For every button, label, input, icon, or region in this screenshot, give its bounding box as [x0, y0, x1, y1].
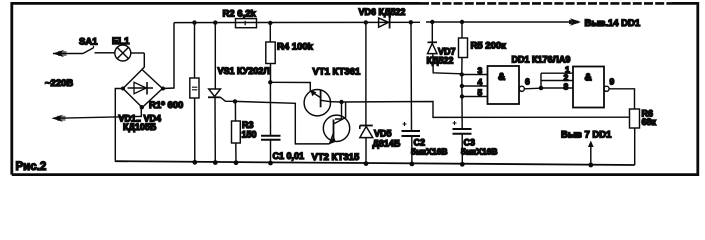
- resistor R1 (box with marks): [190, 23, 199, 163]
- node pin4: [460, 84, 464, 88]
- svg-text:68к: 68к: [642, 117, 657, 127]
- node rail2 R5: [460, 20, 464, 24]
- diode bridge VD1-VD4 diamond: [123, 70, 163, 108]
- svg-text:9: 9: [610, 77, 615, 87]
- svg-text:4: 4: [478, 77, 483, 87]
- node VT1 collector: [339, 100, 343, 104]
- svg-text:VD5: VD5: [374, 129, 392, 139]
- wire VT2 collector up to jog wire: [345, 102, 347, 110]
- svg-text:~220В: ~220В: [45, 78, 73, 89]
- node pin5: [460, 94, 464, 98]
- svg-text:Выв.14 DD1: Выв.14 DD1: [585, 18, 641, 29]
- svg-text:SA1: SA1: [79, 37, 98, 48]
- svg-text:5мкХ16В: 5мкХ16В: [411, 147, 448, 157]
- wire: R4 node down through gate-wire to C1: [269, 82, 271, 135]
- svg-text:6: 6: [525, 77, 530, 87]
- zener VD5: [360, 22, 373, 163]
- svg-text:Д814Б: Д814Б: [373, 139, 401, 149]
- svg-text:VT2 КТ315: VT2 КТ315: [312, 152, 360, 163]
- logic gate DD1.2: [573, 67, 609, 108]
- wire: right vertex up to top rail: [163, 23, 174, 89]
- svg-text:&: &: [585, 73, 592, 84]
- wire: R4 node to VT1 emitter: [270, 82, 310, 91]
- svg-text:R5 200к: R5 200к: [471, 41, 507, 52]
- svg-text:R1* 600: R1* 600: [149, 100, 183, 111]
- node R4 bottom: [268, 80, 272, 84]
- wire: gate1 out to gate2 inputs: [524, 73, 573, 89]
- svg-text:&: &: [498, 72, 505, 83]
- node on rail: VD5: [364, 20, 368, 24]
- capacitor C3: [453, 121, 472, 163]
- thyristor VS1: [208, 23, 235, 163]
- wire: left vertex to common rail: [115, 89, 123, 161]
- node on rail: C2 branch: [409, 20, 413, 24]
- lamp EL1: [106, 45, 144, 61]
- logic gate DD1.1: [488, 66, 525, 104]
- resistor R4: [266, 23, 275, 82]
- node gate/R3: [233, 99, 237, 103]
- svg-text:VT1 КТ361: VT1 КТ361: [313, 67, 361, 78]
- wire: lower AC lead to bridge bottom: [53, 107, 141, 118]
- diode VD7: [428, 22, 462, 74]
- resistor R6: [630, 109, 640, 165]
- node: bridge bottom vertex: [140, 105, 144, 109]
- border frame: [12, 3, 698, 174]
- node on rail: R4: [268, 21, 272, 25]
- capacitor C2: [402, 122, 421, 163]
- transistor VT1 (KT361 pnp): [304, 90, 330, 116]
- svg-text:R4 100k: R4 100k: [277, 42, 314, 53]
- svg-text:R3: R3: [242, 120, 254, 130]
- bus: gate1 inputs: [461, 74, 463, 129]
- resistor R5: [459, 22, 468, 74]
- wire: top rail (left section): [174, 21, 420, 23]
- arrowhead lower left: [52, 115, 66, 122]
- resistor R3: [232, 101, 241, 162]
- svg-text:КД522: КД522: [427, 56, 454, 66]
- svg-text:5мкХ16В: 5мкХ16В: [461, 147, 498, 157]
- emitter arrow VT2: [329, 136, 336, 144]
- svg-text:EL1: EL1: [112, 36, 130, 47]
- switch SA1: [83, 46, 106, 54]
- svg-text:Выв 7 DD1: Выв 7 DD1: [561, 130, 612, 141]
- pin7 stub with up arrow: [588, 141, 594, 166]
- node rail2 VD7: [430, 20, 434, 24]
- node on rail: R1: [192, 20, 196, 24]
- wire: gate wire VS1 to VT2 emitter: [235, 101, 330, 143]
- rail nodes: [192, 160, 197, 165]
- arrowhead pin14: [569, 18, 581, 25]
- node on rail: VS1: [213, 20, 217, 24]
- wire: lamp to bridge top: [142, 53, 144, 70]
- svg-text:VS1 КУ202Л: VS1 КУ202Л: [218, 66, 270, 76]
- node: bridge right vertex: [161, 87, 165, 91]
- capacitor C1: [261, 136, 281, 163]
- pin5 wire: [462, 96, 487, 98]
- svg-text:Рис.2: Рис.2: [16, 161, 47, 173]
- node gate2 in: [539, 86, 544, 91]
- svg-text:150: 150: [242, 130, 257, 140]
- svg-text:R2 6,2k: R2 6,2k: [223, 9, 257, 20]
- svg-text:VD6 КД522: VD6 КД522: [359, 7, 406, 17]
- svg-text:3: 3: [478, 66, 483, 76]
- wire: collector node down to VT2 base: [330, 102, 341, 119]
- wire: VT node to right (jog to lower rail): [342, 102, 630, 118]
- common bottom rail: [115, 161, 634, 165]
- svg-text:С1 0,01: С1 0,01: [273, 151, 305, 161]
- wire: top rail right section with pin14 arrow: [426, 21, 571, 23]
- pin4 wire: [462, 85, 487, 87]
- svg-text:8: 8: [564, 82, 569, 92]
- node pin3: [460, 72, 464, 76]
- wire: upper AC lead with left arrow: [53, 53, 83, 55]
- transistor VT2 (KT315 npn): [323, 110, 349, 144]
- node: bridge left vertex: [121, 87, 125, 91]
- arrowhead upper left: [53, 50, 67, 57]
- wire: gate2 out to R6: [609, 89, 634, 109]
- svg-text:КД105Б: КД105Б: [123, 122, 157, 132]
- svg-text:DD1 К176ЛА9: DD1 К176ЛА9: [512, 55, 571, 65]
- emitter arrow VT1: [311, 90, 317, 96]
- resistor R2: [236, 19, 257, 28]
- bridge internal diode: [128, 82, 154, 95]
- pin3 wire: [462, 74, 487, 76]
- diode VD6: [379, 17, 390, 29]
- wire: C2 branch down: [410, 22, 413, 130]
- svg-text:5: 5: [478, 88, 483, 98]
